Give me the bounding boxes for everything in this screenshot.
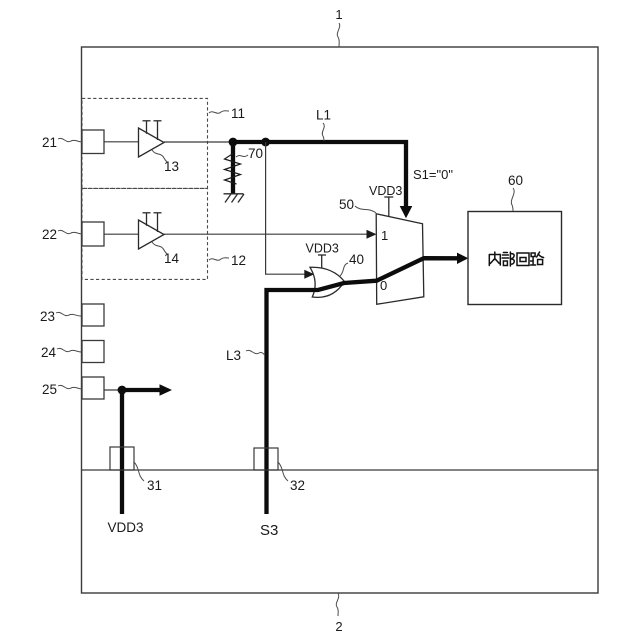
- svg-text:60: 60: [508, 173, 523, 188]
- input buffer 14: [139, 213, 165, 249]
- svg-text:S1="0": S1="0": [413, 167, 453, 182]
- svg-text:23: 23: [40, 309, 55, 324]
- pad 23: [82, 304, 104, 326]
- label 21 leader: [58, 138, 82, 142]
- label 22 leader: [58, 230, 82, 234]
- wire L1 with select signal S1 arrow into mux: [233, 142, 406, 207]
- pad 32: [254, 448, 278, 470]
- thick VDD3 riser through pad 31: [120, 390, 124, 514]
- svg-text:VDD3: VDD3: [369, 184, 402, 198]
- pad 31: [110, 447, 134, 470]
- label 40 leader: [340, 263, 348, 276]
- wire pad22 to buffer14: [104, 233, 139, 235]
- input buffer 13: [139, 121, 165, 157]
- label L1 leader: [322, 123, 324, 141]
- label 60 leader: [511, 188, 514, 211]
- arrowhead of VDD3 feed: [160, 384, 173, 396]
- VDD3 supply tick above mux: [384, 197, 393, 216]
- svg-text:50: 50: [339, 197, 354, 212]
- OR gate 40: [310, 267, 345, 297]
- label 50 leader: [355, 206, 376, 213]
- svg-text:11: 11: [231, 106, 245, 121]
- VDD3 feed from pad 25: wire to node: [104, 389, 122, 391]
- node dot at pad 25 branch: [118, 386, 127, 395]
- svg-text:VDD3: VDD3: [108, 520, 144, 535]
- arrowhead into mux input 1: [367, 230, 377, 239]
- pad 25: [82, 377, 104, 399]
- node dot branch to gate: [261, 138, 270, 147]
- thick VDD3 arrow to the right: [122, 388, 161, 392]
- svg-text:1: 1: [335, 7, 342, 22]
- label L3 leader: [246, 350, 265, 355]
- dashed block 12: [82, 188, 208, 279]
- node dot at 70: [229, 138, 238, 147]
- pull-down stub at node 70: [231, 142, 235, 194]
- VDD3 supply tick above gate 40: [318, 255, 326, 268]
- dashed block 11: [82, 98, 208, 188]
- chip outline (semiconductor device 1): [82, 47, 599, 593]
- thick signal path L3 through gate and mux to internal circuit: [267, 258, 459, 514]
- svg-text:21: 21: [42, 135, 57, 150]
- svg-text:S3: S3: [260, 522, 278, 539]
- wire pad21 to buffer13: [104, 141, 139, 143]
- arrowhead into OR gate input: [304, 270, 314, 279]
- svg-text:L1: L1: [316, 108, 331, 123]
- svg-text:12: 12: [231, 253, 246, 268]
- wire buffer13 output to node 70: [164, 141, 233, 143]
- node 2 label leader: [336, 593, 339, 616]
- svg-text:2: 2: [335, 619, 342, 634]
- svg-text:32: 32: [290, 478, 305, 493]
- pad 21: [82, 130, 104, 154]
- pad 24: [82, 341, 104, 363]
- pad 22: [82, 222, 104, 246]
- svg-text:L3: L3: [226, 348, 241, 363]
- label 70 leader: [236, 155, 248, 157]
- label 31 leader: [134, 462, 144, 481]
- svg-text:24: 24: [41, 345, 57, 360]
- arrowhead into internal circuit: [457, 253, 468, 264]
- ground symbol: [224, 194, 245, 203]
- svg-text:70: 70: [248, 146, 263, 161]
- label 14 leader: [152, 242, 167, 254]
- kanji 路: [531, 252, 544, 265]
- label 11 leader: [209, 111, 229, 114]
- svg-text:VDD3: VDD3: [306, 242, 339, 256]
- substrate boundary line: [82, 469, 599, 471]
- branch wire from L1 node down to OR gate input: [266, 142, 306, 274]
- kanji 部: [502, 252, 514, 266]
- label 12 leader: [209, 258, 229, 261]
- svg-text:25: 25: [42, 382, 57, 397]
- arrowhead S1 into mux top: [400, 206, 413, 218]
- kanji 内: [489, 252, 500, 266]
- node 1 label leader: [337, 23, 340, 47]
- svg-text:31: 31: [147, 478, 162, 493]
- label 13 leader: [152, 150, 167, 162]
- svg-text:22: 22: [42, 227, 57, 242]
- label 24 leader: [57, 348, 81, 352]
- svg-text:40: 40: [349, 252, 364, 267]
- zigzag discharge mark 70: [225, 154, 241, 185]
- wire buffer14 output to mux input 1: [164, 233, 369, 235]
- label 32 leader: [278, 462, 288, 481]
- label 25 leader: [58, 385, 82, 389]
- label 23 leader: [56, 312, 81, 316]
- svg-text:13: 13: [164, 159, 179, 174]
- svg-text:1: 1: [381, 228, 388, 243]
- mux 50: [376, 214, 424, 304]
- kanji 回: [517, 253, 529, 266]
- internal circuit block 60: [468, 212, 562, 305]
- svg-text:14: 14: [164, 251, 180, 266]
